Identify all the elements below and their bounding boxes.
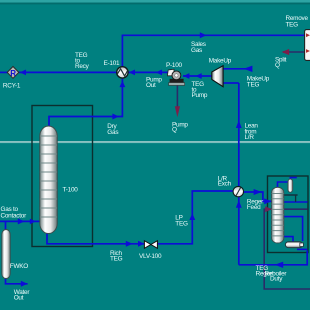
stream condenser liquid stub (295, 195, 297, 202)
arrow Pump Out at E-101 (129, 70, 135, 76)
svg-text:Gas: Gas (191, 47, 202, 54)
svg-text:Out: Out (14, 295, 24, 302)
svg-text:TEG: TEG (247, 82, 260, 89)
arrow Dry Gas vertical into E-101 (120, 81, 126, 87)
arrow Gas to Contactor 2 (30, 219, 36, 225)
stream regen to reboiler loop (284, 217, 303, 241)
svg-text:Exch: Exch (218, 181, 232, 188)
arrow LP TEG vertical (189, 213, 195, 220)
stream FWKO vapour stub (5, 221, 7, 230)
arrow lean riser upper (236, 120, 242, 128)
arrow Dry Gas horizontal (112, 114, 119, 120)
reboiler end box (300, 243, 304, 247)
arrow Rich TEG (126, 241, 133, 247)
svg-text:P-100: P-100 (166, 62, 182, 69)
arrow MakeUp TEG (244, 66, 253, 72)
stream condenser vapour stub (290, 178, 297, 180)
stream Reger Feed from exchanger (244, 192, 272, 201)
svg-text:Q: Q (275, 62, 280, 69)
svg-text:Feed: Feed (247, 204, 261, 211)
stream Sales Gas (122, 34, 305, 36)
svg-text:Contactor: Contactor (1, 213, 28, 220)
mixer MakeUp (212, 66, 223, 87)
valve VLV-100 (144, 241, 157, 249)
svg-text:E-101: E-101 (104, 60, 120, 67)
condenser drum (288, 179, 293, 192)
stream TEG to Pump (mixer to pump suction) (183, 75, 212, 77)
recycle block RCY-1 (7, 67, 19, 79)
stream condenser reflux line (284, 194, 298, 196)
stream Pump Out (pump to E-101) (129, 71, 169, 73)
arrow Water Out (21, 281, 28, 287)
pump P-100 (167, 69, 184, 85)
svg-text:MakeUp: MakeUp (209, 58, 232, 65)
svg-text:T-100: T-100 (63, 186, 79, 193)
arrow Reger Feed right of exchanger (254, 189, 262, 195)
svg-text:L/R: L/R (245, 134, 255, 141)
svg-text:Duty: Duty (270, 276, 283, 283)
gray divider line (0, 140, 310, 143)
svg-text:Out: Out (146, 82, 156, 89)
svg-text:TEG: TEG (110, 256, 123, 263)
stream lean TEG bottom run (239, 251, 307, 265)
stream Dry Gas column stub (49, 79, 122, 128)
stream MakeUp TEG (223, 68, 247, 70)
reboiler (285, 242, 302, 248)
arrow Reger Feed into column (264, 198, 271, 204)
window top highlight strip (0, 0, 310, 3)
arrow Pump Out near pump (156, 70, 162, 76)
column TEG Regen (272, 187, 284, 243)
stream reboiler outlet bottom (297, 248, 307, 250)
energy arrow Pump Q (175, 106, 180, 117)
heat exchanger L/R Exch (233, 186, 243, 196)
svg-text:Gas: Gas (107, 129, 118, 136)
svg-text:TEG: TEG (286, 22, 299, 29)
arrow TEG to Pump mid (196, 73, 202, 79)
stream Water Out (6, 278, 28, 284)
energy stream Split Q line (283, 51, 305, 53)
stream LP TEG run valve to exchanger (158, 191, 234, 244)
stream Rich TEG from column bottom (47, 233, 145, 244)
arrow Sales Gas (200, 32, 207, 38)
stream regen side draw right (284, 201, 308, 203)
arrow Gas to Contactor 1 (18, 218, 25, 224)
stream TEG to Recy (19, 71, 117, 73)
svg-text:R: R (10, 69, 16, 78)
stream Lean from L/R to mixer (223, 82, 239, 84)
arrow TEG to Pump at pump (183, 73, 189, 79)
arrow lean TEG bottom (275, 262, 283, 268)
stream column bottoms to reboiler (283, 237, 294, 242)
sub-flowsheet boundary TEG Regen (268, 176, 309, 253)
stream lean TEG riser (238, 83, 240, 265)
vessel FWKO (2, 230, 10, 279)
svg-text:RCY-1: RCY-1 (3, 83, 21, 90)
arrow lean riser lower (236, 200, 242, 207)
sub-flowsheet boundary T-100 (32, 106, 93, 247)
stream Sales Gas riser (121, 35, 123, 66)
energy stream Reboiler Duty line (264, 209, 310, 289)
stream RCY-1 outlet stub (0, 71, 8, 73)
energy arrow Split Q (282, 49, 290, 55)
svg-text:Recy: Recy (75, 63, 90, 70)
arrow Rich TEG at valve (138, 241, 144, 247)
svg-text:Q: Q (172, 127, 177, 134)
window top shadow line (0, 3, 310, 5)
column T-100 (40, 126, 57, 234)
energy stream Pump Q line (176, 85, 178, 108)
heat exchanger E-101 (117, 67, 128, 78)
arrow TEG to Recy (20, 70, 26, 76)
svg-text:FWKO: FWKO (10, 263, 28, 270)
svg-text:VLV-100: VLV-100 (139, 253, 162, 260)
splitter Remove TEG box (305, 30, 313, 61)
stream Gas to Contactor (0, 220, 40, 222)
svg-text:Pump: Pump (192, 92, 208, 99)
svg-text:TEG: TEG (175, 221, 188, 228)
energy arrow Reboiler Duty (265, 206, 272, 212)
stream regen overhead to condenser (278, 182, 289, 189)
